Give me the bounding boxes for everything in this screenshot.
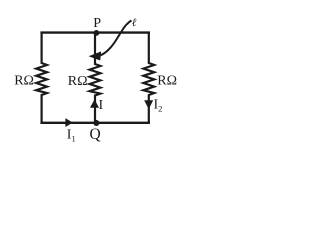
wire bottom horizontal Q rail — [40, 122, 150, 124]
svg-text:Q: Q — [90, 126, 101, 143]
curved arrow head — [89, 51, 102, 60]
node Q junction dot — [93, 120, 99, 126]
svg-text:P: P — [93, 16, 101, 31]
node P junction dot — [94, 30, 100, 36]
wire top horizontal P rail — [40, 31, 150, 33]
svg-text:I: I — [99, 98, 104, 113]
wire middle branch with resistor zigzag — [90, 32, 101, 125]
wire right branch with resistor zigzag — [143, 32, 154, 125]
svg-text:RΩ: RΩ — [14, 74, 34, 89]
curved arrow i pointing into node P branch — [101, 21, 132, 56]
svg-text:ℓ: ℓ — [132, 17, 137, 29]
current arrow I1 (bottom wire, pointing right) — [65, 118, 72, 127]
current arrow I2 (right branch, pointing down) — [144, 100, 153, 109]
svg-text:RΩ: RΩ — [157, 74, 177, 89]
current arrow I (middle branch, pointing up) — [90, 99, 99, 107]
svg-text:RΩ: RΩ — [68, 74, 88, 89]
svg-text:I2: I2 — [154, 98, 163, 114]
wire left branch with resistor zigzag — [36, 32, 47, 125]
svg-text:I1: I1 — [67, 128, 76, 144]
